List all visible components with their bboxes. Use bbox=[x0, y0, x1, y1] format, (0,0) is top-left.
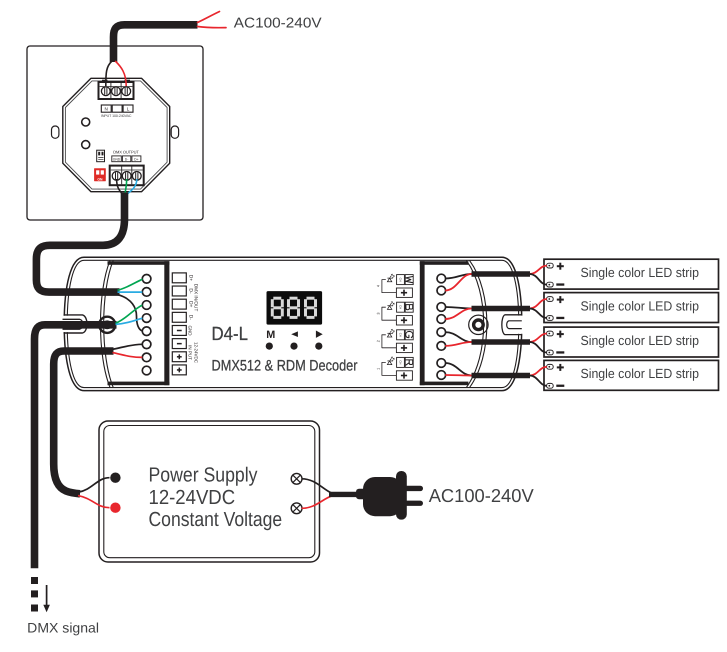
svg-text:12-24VDC: 12-24VDC bbox=[194, 342, 199, 364]
svg-text:DMX signal: DMX signal bbox=[27, 620, 99, 635]
svg-text:CH: CH bbox=[399, 278, 403, 282]
svg-text:ON: ON bbox=[97, 178, 103, 182]
svg-text:D+: D+ bbox=[188, 301, 194, 308]
svg-text:CH: CH bbox=[399, 333, 403, 337]
svg-text:D-: D- bbox=[188, 288, 194, 294]
svg-text:1: 1 bbox=[376, 368, 380, 370]
svg-text:N: N bbox=[105, 106, 108, 111]
svg-text:L: L bbox=[127, 106, 130, 111]
svg-text:DMX512 & RDM Decoder: DMX512 & RDM Decoder bbox=[212, 358, 358, 375]
svg-text:D+: D+ bbox=[188, 275, 194, 282]
svg-text:DMX IN/OUT: DMX IN/OUT bbox=[194, 284, 199, 312]
svg-text:AC100-240V: AC100-240V bbox=[429, 485, 535, 506]
svg-text:Constant Voltage: Constant Voltage bbox=[149, 509, 283, 531]
svg-text:4: 4 bbox=[376, 285, 380, 287]
svg-text:3: 3 bbox=[376, 313, 380, 315]
svg-text:Single color LED strip: Single color LED strip bbox=[581, 265, 700, 280]
svg-text:Power Supply: Power Supply bbox=[149, 465, 259, 487]
svg-text:Single color LED strip: Single color LED strip bbox=[581, 366, 700, 381]
svg-text:12-24VDC: 12-24VDC bbox=[149, 487, 236, 509]
svg-text:D-: D- bbox=[188, 315, 194, 321]
svg-text:AC100-240V: AC100-240V bbox=[234, 15, 322, 31]
svg-text:GND: GND bbox=[188, 326, 193, 337]
svg-text:GND: GND bbox=[113, 158, 121, 162]
svg-text:D4-L: D4-L bbox=[212, 324, 249, 345]
svg-text:INPUT 100-240VAC: INPUT 100-240VAC bbox=[101, 114, 132, 118]
svg-text:D-: D- bbox=[125, 158, 129, 162]
svg-text:2: 2 bbox=[376, 340, 380, 342]
svg-text:CH: CH bbox=[399, 305, 403, 309]
svg-text:D+: D+ bbox=[134, 158, 138, 162]
svg-text:M: M bbox=[266, 329, 275, 341]
svg-text:DMX OUTPUT: DMX OUTPUT bbox=[113, 150, 139, 155]
svg-text:Single color LED strip: Single color LED strip bbox=[581, 298, 700, 313]
svg-text:IN PUT: IN PUT bbox=[188, 345, 193, 360]
svg-text:CH: CH bbox=[399, 360, 403, 364]
svg-text:Single color LED strip: Single color LED strip bbox=[581, 333, 700, 348]
